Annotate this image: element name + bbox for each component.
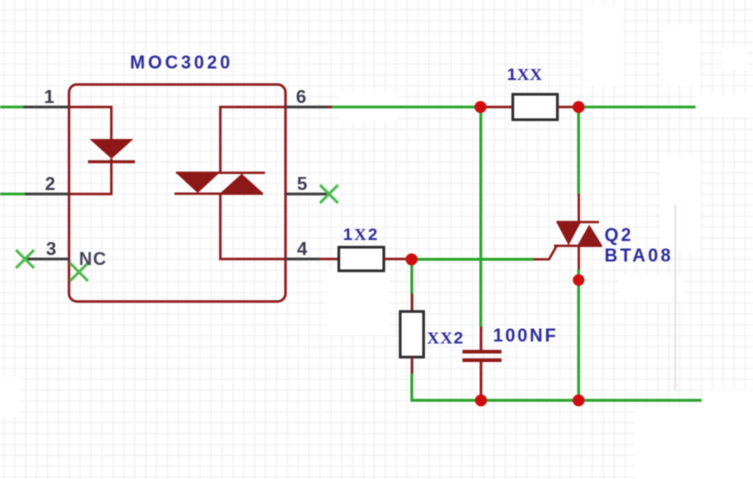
capacitor C1 100NF [463,327,502,401]
svg-text:4: 4 [297,238,308,259]
wire net1 to pin1 [0,106,24,109]
svg-text:BTA08: BTA08 [605,246,674,266]
no-connect X on pin 5 [320,185,338,203]
junction dot F rail-triac [573,394,585,406]
svg-text:Q2: Q2 [605,225,634,245]
no-connect X on pin 3 [16,250,34,268]
resistor R1 1XX [481,94,579,119]
junction dot A [475,101,487,113]
svg-text:2: 2 [45,173,55,194]
junction dot E rail-cap [475,394,487,406]
LED diode inside U1 [69,107,135,194]
svg-text:1XX: 1XX [507,65,543,84]
svg-text:MOC3020: MOC3020 [130,53,233,73]
wire A down to capacitor [479,107,482,327]
pin 3 [25,238,69,259]
optocoupler U1 body MOC3020 [69,85,286,302]
wire B down to triac [577,107,580,195]
svg-text:1: 1 [44,86,54,107]
svg-text:3: 3 [46,238,56,259]
junction dot B [573,101,585,113]
junction dot D gate node [406,253,418,265]
wire gate net [412,258,534,261]
svg-text:1X2: 1X2 [343,225,379,244]
no-connect X at NC [70,263,88,281]
wire triac A1 down to rail [577,270,580,401]
svg-text:6: 6 [296,86,306,107]
wire net2 to pin2 [0,193,25,196]
wire top right [579,106,696,109]
pin 1 [24,86,70,107]
svg-text:XX2: XX2 [427,329,464,348]
photo-triac inside U1 [175,107,286,259]
junction dot C below triac [573,274,585,286]
pin 4 [286,238,320,259]
resistor R3 XX2 [400,294,423,375]
resistor R2 1X2 [320,247,407,271]
pin 2 [25,173,69,194]
wire R3 down to rail corner [412,374,702,401]
svg-text:100NF: 100NF [493,326,558,346]
pin 5 [286,173,330,194]
wire gate node down [410,259,413,294]
wire pin6 to R1 [328,106,481,109]
pin 6 [286,86,329,107]
svg-text:NC: NC [79,249,107,269]
triac Q2 [533,194,602,270]
svg-text:5: 5 [297,173,307,194]
